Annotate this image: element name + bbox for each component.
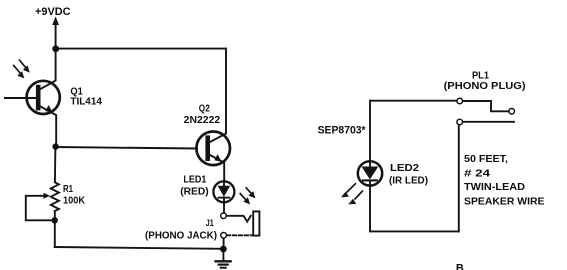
svg-text:J1: J1 [206, 218, 215, 229]
svg-text:LED2: LED2 [390, 163, 419, 174]
svg-text:100K: 100K [63, 195, 85, 206]
svg-text:B: B [456, 263, 464, 270]
svg-text:(PHONO JACK): (PHONO JACK) [145, 229, 217, 241]
svg-text:50 FEET,: 50 FEET, [464, 153, 508, 165]
svg-text:2N2222: 2N2222 [184, 115, 221, 126]
svg-text:(IR LED): (IR LED) [389, 176, 428, 187]
svg-text:(PHONO PLUG): (PHONO PLUG) [444, 80, 526, 92]
svg-text:SEP8703*: SEP8703* [318, 124, 367, 136]
svg-text:+9VDC: +9VDC [35, 6, 71, 18]
svg-text:R1: R1 [63, 184, 73, 195]
svg-text:Q2: Q2 [199, 103, 210, 114]
svg-text:(RED): (RED) [180, 187, 209, 198]
svg-text:# 24: # 24 [464, 167, 490, 179]
svg-text:LED1: LED1 [183, 175, 206, 186]
svg-text:TIL414: TIL414 [70, 96, 102, 107]
svg-text:SPEAKER WIRE: SPEAKER WIRE [464, 195, 545, 207]
svg-text:TWIN-LEAD: TWIN-LEAD [464, 181, 525, 193]
